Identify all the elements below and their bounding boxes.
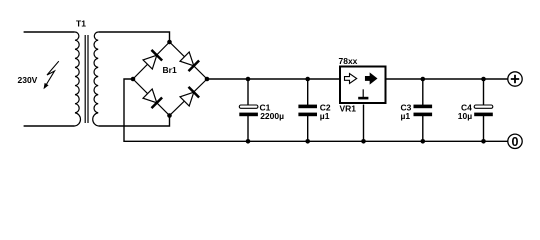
svg-text:µ1: µ1 <box>401 111 411 121</box>
junction dot C4 top <box>481 77 486 82</box>
capacitor C3 plate top <box>414 105 433 109</box>
wire: C2 branch <box>307 79 309 141</box>
junction dot bridge right vertex <box>205 77 210 82</box>
voltage regulator VR1 box <box>340 67 386 104</box>
wire: regulator output to plus terminal <box>386 78 508 80</box>
diode D2 upper-right <box>179 51 199 71</box>
svg-text:2200µ: 2200µ <box>260 111 284 121</box>
transformer T1 core line 1 <box>84 35 86 123</box>
regulator ground symbol bar <box>358 97 368 100</box>
wire: primary top lead <box>24 31 75 33</box>
junction dot C3 top <box>421 77 426 82</box>
wire: secondary bottom to bridge <box>99 116 170 127</box>
svg-text:10µ: 10µ <box>458 111 472 121</box>
junction dot bridge top vertex <box>167 40 172 45</box>
junction dot C4 bottom <box>481 139 486 144</box>
wire: C3 branch <box>422 79 424 141</box>
transformer T1 secondary winding <box>93 32 99 126</box>
wire: bridge minus to bottom rail <box>124 79 508 141</box>
wire: secondary top to bridge <box>99 32 170 42</box>
capacitor C1 negative plate <box>239 113 258 117</box>
regulator ground symbol stub <box>362 89 364 97</box>
diode D4 lower-right <box>179 87 199 107</box>
capacitor C4 positive plate <box>474 105 493 108</box>
junction dot C1 top <box>246 77 251 82</box>
junction dot regulator ground <box>361 139 366 144</box>
regulator output arrow (solid) <box>366 74 377 84</box>
svg-text:VR1: VR1 <box>340 103 357 113</box>
transformer T1 core line 2 <box>87 35 89 123</box>
capacitor C1 positive plate <box>239 105 258 108</box>
bridge rectifier Br1 diamond edges <box>133 42 207 116</box>
transformer T1 primary winding <box>75 32 81 126</box>
svg-text:T1: T1 <box>76 18 86 28</box>
capacitor C2 plate top <box>298 105 317 109</box>
output terminal zero <box>508 134 522 149</box>
wire: bridge plus to regulator input <box>207 78 339 80</box>
capacitor C2 plate bottom <box>298 113 317 117</box>
svg-text:78xx: 78xx <box>339 56 358 66</box>
svg-text:0: 0 <box>512 135 519 149</box>
wire: regulator ground to bottom rail <box>363 105 365 142</box>
junction dot C3 bottom <box>421 139 426 144</box>
output terminal plus <box>508 72 522 86</box>
capacitor C3 plate bottom <box>414 113 433 117</box>
junction dot C1 bottom <box>246 139 251 144</box>
mains voltage arrow <box>44 61 59 89</box>
svg-text:230V: 230V <box>18 75 38 85</box>
regulator input arrow (hollow) <box>345 74 357 84</box>
junction dot bridge bottom vertex <box>167 113 172 118</box>
svg-text:Br1: Br1 <box>163 65 177 75</box>
diode D3 lower-left <box>142 88 162 108</box>
wire: primary bottom lead <box>24 125 75 127</box>
capacitor C4 negative plate <box>474 113 493 117</box>
svg-text:µ1: µ1 <box>320 111 330 121</box>
wire: C4 branch <box>483 79 485 141</box>
junction dot bridge left vertex <box>131 77 136 82</box>
junction dot C2 top <box>305 77 310 82</box>
junction dot C2 bottom <box>305 139 310 144</box>
wire: C1 branch <box>247 79 249 141</box>
diode D1 upper-left <box>142 50 162 70</box>
